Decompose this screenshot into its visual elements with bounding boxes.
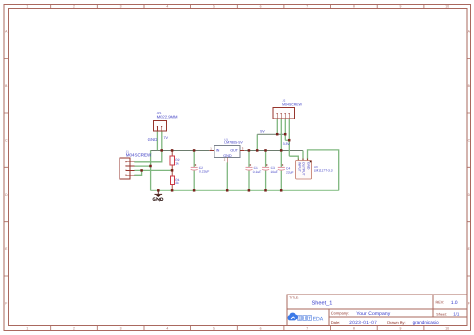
wire 7V bus (151, 150, 210, 152)
svg-text:TITLE:: TITLE: (289, 295, 299, 299)
junction 5V bus / riser (256, 149, 259, 152)
svg-text:OUTPUT: OUTPUT (302, 162, 306, 176)
junction gnd rail / C2 (193, 189, 196, 192)
svg-text:2: 2 (73, 5, 75, 9)
connector J2 (273, 108, 295, 119)
wire U1 gnd pin to rail (226, 162, 228, 190)
wire J2 pin2 drop (280, 119, 282, 151)
junction divider node (171, 169, 174, 172)
svg-text:0.22uF: 0.22uF (199, 170, 209, 174)
svg-text:5: 5 (213, 326, 215, 330)
svg-text:Sheet_1: Sheet_1 (312, 300, 333, 307)
capacitor C3 (262, 167, 269, 170)
svg-text:2023-01-07: 2023-01-07 (349, 320, 377, 325)
junction gnd rail / U1 gnd (226, 189, 229, 192)
wire R2 top lead (171, 151, 173, 157)
junction 5V line / J2 pin1 (276, 133, 279, 136)
svg-text:3: 3 (120, 5, 122, 9)
svg-text:3.3V: 3.3V (283, 142, 291, 146)
svg-text:GND: GND (148, 137, 158, 142)
svg-text:LM7805-5V: LM7805-5V (224, 141, 243, 145)
svg-text:Sheet:: Sheet: (436, 313, 446, 317)
svg-text:4: 4 (166, 326, 168, 330)
junction 3.3V jog / J2 pin4 (288, 139, 291, 142)
svg-text:7V: 7V (164, 136, 169, 140)
capacitor C2 (191, 167, 198, 170)
svg-text:8: 8 (353, 326, 355, 330)
svg-text:Drawn By:: Drawn By: (387, 320, 405, 325)
capacitor C1 (246, 167, 253, 170)
wire 3.3V into U3 (289, 156, 298, 160)
svg-text:1: 1 (26, 5, 28, 9)
svg-text:REV:: REV: (436, 301, 445, 305)
logo JLC EDA cloud (288, 313, 298, 321)
svg-text:M022.9MM: M022.9MM (157, 114, 178, 119)
svg-text:7: 7 (306, 326, 308, 330)
svg-text:4: 4 (166, 5, 168, 9)
junction gnd rail / C3 (264, 189, 267, 192)
wire JP1 pin2 down through bus to J1 pin1 (134, 131, 162, 162)
svg-text:F: F (5, 302, 7, 306)
junction 5V line / J2 pin3 (284, 133, 287, 136)
capacitor C4 (278, 167, 285, 170)
wire GND bottom rail (151, 189, 339, 191)
C1 polarity plus (249, 164, 251, 166)
C3 polarity plus (266, 164, 268, 166)
svg-text:3: 3 (120, 326, 122, 330)
resistor R1 (170, 176, 174, 185)
svg-text:grandnicasio: grandnicasio (413, 320, 439, 325)
border zone ticks top (51, 4, 424, 8)
wire C4 leads (280, 151, 282, 191)
junction 7V bus / C2 (193, 149, 196, 152)
wire node to R1 top (171, 170, 173, 176)
svg-text:1: 1 (26, 326, 28, 330)
wire J2 pin3 drop (284, 119, 286, 141)
wire C2 bottom lead (193, 170, 195, 190)
svg-text:5: 5 (213, 5, 215, 9)
svg-text:Date:: Date: (331, 320, 341, 325)
svg-text:8: 8 (353, 5, 355, 9)
C2 polarity plus (195, 164, 197, 166)
ground symbol (155, 190, 163, 197)
junction 5V bus / C4 / J2 pin2 (280, 149, 283, 152)
connector JP1 (154, 121, 167, 131)
border zone ticks right (467, 59, 471, 276)
wire J2 pin1 drop (276, 119, 278, 135)
border zone ticks bottom (51, 326, 424, 331)
wire 5V bus from U1 OUT (245, 150, 303, 152)
wire J1 pin4 riser (134, 170, 141, 175)
junction gnd rail / C4 (280, 189, 283, 192)
junction gnd rail / R1 (171, 189, 174, 192)
wire GND from JP1 pin1 jog down to gnd rail (151, 131, 158, 190)
svg-text:10uF: 10uF (270, 170, 278, 174)
svg-text:9: 9 (400, 5, 402, 9)
svg-text:OUT: OUT (230, 149, 238, 153)
svg-text:10: 10 (445, 326, 449, 330)
op-amp U1 regulator LM7805 (209, 146, 244, 163)
svg-text:Company:: Company: (331, 311, 349, 316)
logo JLC EDA text (298, 316, 312, 321)
C4 polarity plus (282, 164, 284, 166)
wire U3 gnd loop (308, 150, 339, 191)
junction gnd rail / gnd symbol (157, 189, 160, 192)
border zone numbers bottom (26, 326, 449, 330)
junction gnd jog / J1 pin2 (149, 165, 152, 168)
junction 5V bus / C3 (264, 149, 267, 152)
wire 5V riser to label line (256, 134, 258, 150)
wire R2 bottom to node (171, 165, 173, 171)
border zone letters right (468, 30, 471, 306)
wire J1 pin2 to gnd jog (134, 165, 150, 167)
connector J1 (120, 158, 135, 179)
svg-text:6: 6 (260, 326, 262, 330)
junction 7V bus / R2 (171, 149, 174, 152)
svg-text:5V: 5V (260, 130, 265, 134)
svg-text:9: 9 (400, 326, 402, 330)
junction 7V bus / JP1 drop (160, 149, 163, 152)
wire C1 leads (248, 151, 250, 191)
wire J1 pin3 to divider node (134, 169, 172, 171)
svg-text:GND: GND (306, 162, 310, 170)
svg-text:M04SCREW: M04SCREW (126, 152, 152, 157)
label GND text (153, 198, 163, 201)
junction 5V bus / C1 (248, 149, 251, 152)
svg-text:EDA: EDA (313, 316, 324, 322)
wire 3.3V jog (285, 139, 289, 141)
wire J2 pin4 drop (288, 119, 290, 156)
svg-text:2: 2 (73, 326, 75, 330)
svg-text:INPUT: INPUT (298, 162, 302, 172)
svg-text:F: F (468, 302, 470, 306)
svg-text:M04SCREW: M04SCREW (282, 103, 303, 107)
junction dots (140, 133, 290, 192)
svg-text:10: 10 (445, 5, 449, 9)
resistor R2 (170, 156, 174, 165)
svg-text:0.1uF: 0.1uF (253, 170, 261, 174)
svg-text:Your Company: Your Company (356, 311, 390, 317)
svg-text:22uF: 22uF (286, 170, 294, 174)
wire C3 leads (265, 151, 267, 191)
svg-text:1k: 1k (175, 161, 179, 165)
svg-text:2k: 2k (175, 181, 179, 185)
junction gnd rail / C1 (248, 189, 251, 192)
regulator U3 LM1117 (296, 158, 312, 179)
svg-text:IN: IN (216, 149, 220, 153)
wire C2 top riser (193, 151, 195, 168)
border zone ticks left (4, 59, 9, 276)
junction J1 pin4 riser (140, 169, 143, 172)
wire R1 bottom to gnd rail (171, 185, 173, 191)
svg-text:1/1: 1/1 (453, 312, 460, 317)
svg-text:7: 7 (306, 5, 308, 9)
border zone numbers top (26, 5, 449, 9)
svg-text:1.0: 1.0 (451, 300, 458, 306)
svg-text:LM1117T-3.3: LM1117T-3.3 (314, 169, 333, 173)
svg-text:6: 6 (260, 5, 262, 9)
border zone letters left (5, 30, 8, 306)
